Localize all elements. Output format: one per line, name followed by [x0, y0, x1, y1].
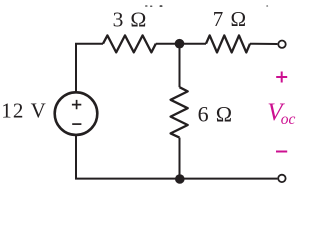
wire: middle vertical lower stub: [179, 138, 181, 179]
node junction dot top: [175, 39, 185, 49]
terminal a (open circle, top right): [278, 41, 285, 48]
minus polarity mark (magenta): [276, 151, 287, 153]
svg-text:6 Ω: 6 Ω: [198, 101, 233, 126]
resistor R 3-ohm zigzag: [103, 35, 156, 52]
plus sign inside source: [72, 100, 81, 109]
minus sign inside source: [72, 123, 81, 125]
plus polarity mark (magenta): [276, 72, 287, 83]
resistor R 7-ohm zigzag: [206, 35, 250, 52]
voltage source V1 12V circle: [55, 92, 98, 135]
svg-text:12 V: 12 V: [1, 99, 47, 123]
wire: top-right to terminal: [250, 43, 277, 45]
wire: middle vertical upper stub: [179, 44, 181, 87]
svg-text:oc: oc: [281, 111, 296, 128]
wire: top middle segment between resistors: [156, 43, 206, 45]
node junction dot bottom: [175, 174, 185, 184]
wire: top-left horizontal from corner to 3-ohm resistor: [76, 44, 103, 92]
wire: left vertical below source and bottom horizontal: [76, 135, 277, 179]
stray speck marks top edge: [145, 5, 148, 7]
terminal b (open circle, bottom right): [278, 175, 285, 182]
svg-text:3 Ω: 3 Ω: [113, 8, 148, 32]
svg-text:7 Ω: 7 Ω: [213, 7, 247, 31]
resistor R 6-ohm vertical zigzag: [171, 87, 188, 137]
